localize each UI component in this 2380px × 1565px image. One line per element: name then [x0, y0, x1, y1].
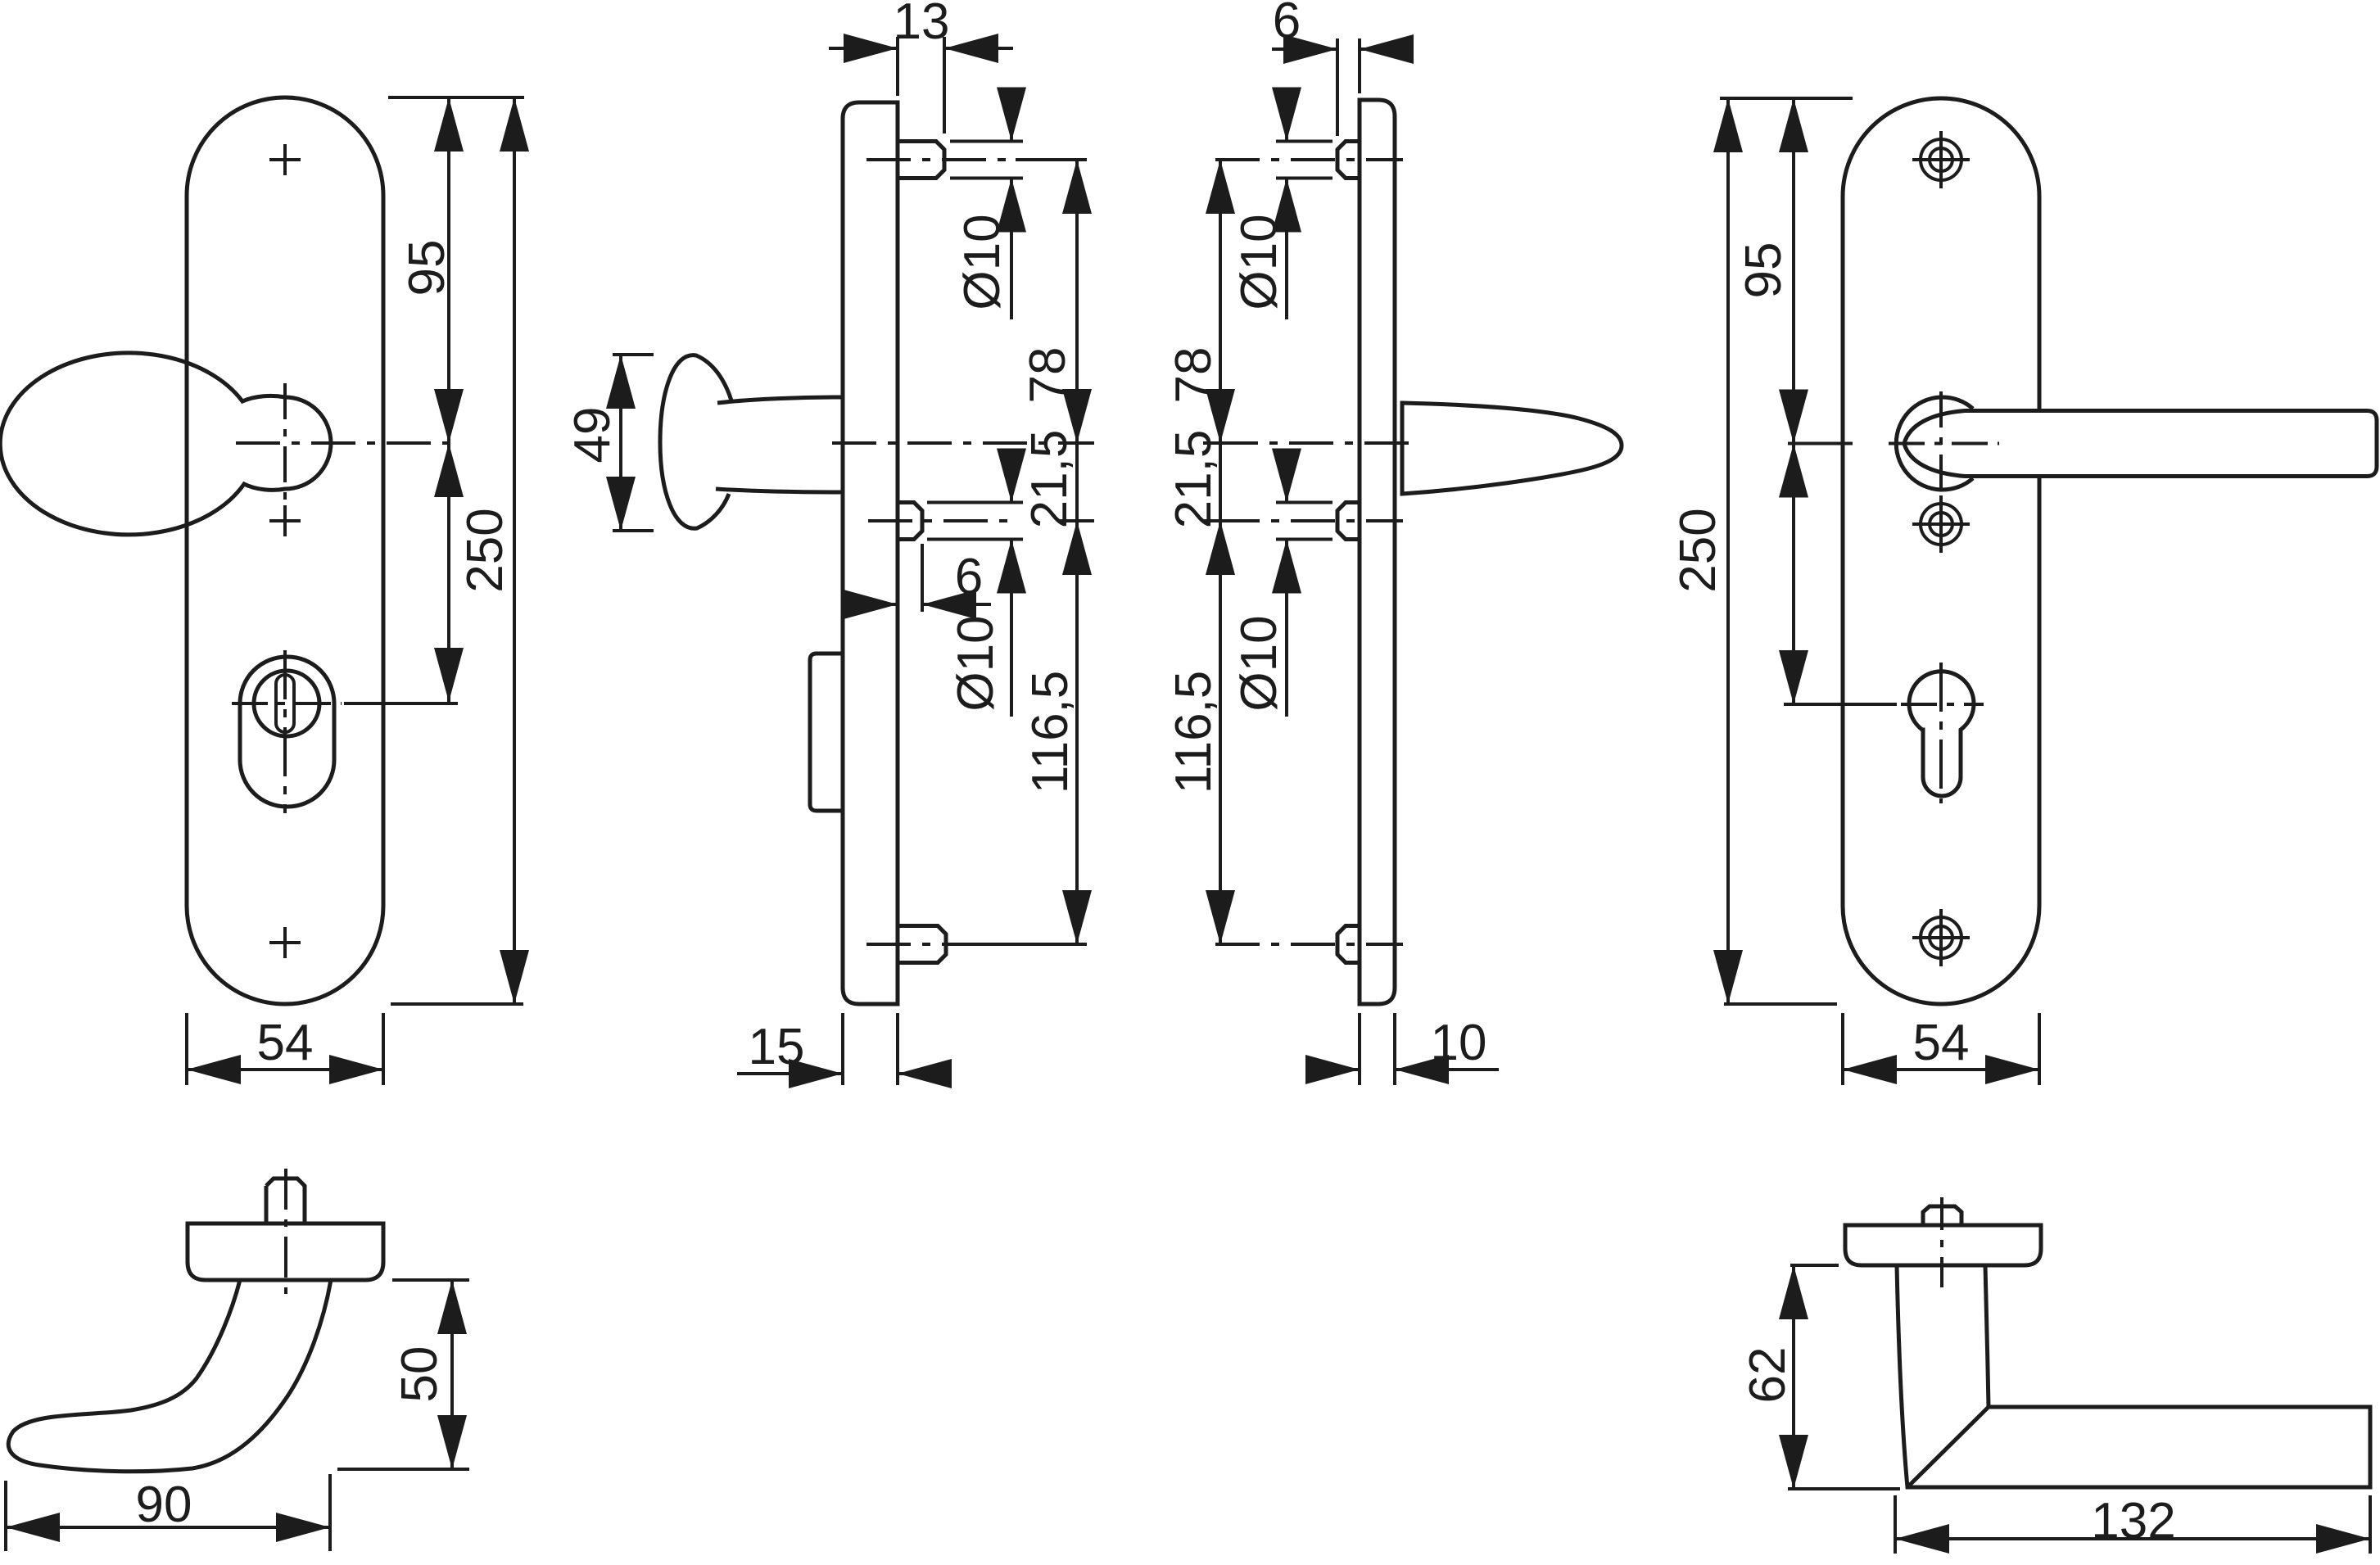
svg-text:95: 95 [1735, 242, 1792, 299]
svg-text:21,5: 21,5 [1165, 430, 1222, 529]
svg-text:62: 62 [1740, 1347, 1796, 1404]
svg-text:Ø10: Ø10 [954, 214, 1011, 310]
svg-text:90: 90 [136, 1477, 192, 1533]
svg-text:Ø10: Ø10 [948, 615, 1004, 711]
svg-text:54: 54 [1913, 1015, 1970, 1071]
svg-text:10: 10 [1431, 1015, 1487, 1071]
svg-text:95: 95 [399, 240, 455, 296]
svg-text:78: 78 [1165, 347, 1222, 404]
svg-text:49: 49 [564, 407, 621, 464]
svg-text:250: 250 [1670, 508, 1726, 592]
svg-text:132: 132 [2091, 1493, 2175, 1549]
svg-text:116,5: 116,5 [1165, 671, 1222, 794]
svg-text:Ø10: Ø10 [1231, 615, 1287, 711]
svg-text:116,5: 116,5 [1022, 671, 1079, 794]
svg-text:250: 250 [457, 508, 514, 592]
svg-text:21,5: 21,5 [1021, 430, 1078, 529]
svg-text:13: 13 [894, 0, 950, 50]
svg-text:6: 6 [955, 549, 983, 605]
svg-text:54: 54 [257, 1015, 314, 1071]
svg-text:6: 6 [1273, 0, 1301, 49]
svg-text:50: 50 [391, 1346, 448, 1403]
svg-text:78: 78 [1020, 347, 1076, 404]
svg-text:Ø10: Ø10 [1231, 214, 1287, 310]
svg-text:15: 15 [749, 1019, 805, 1075]
